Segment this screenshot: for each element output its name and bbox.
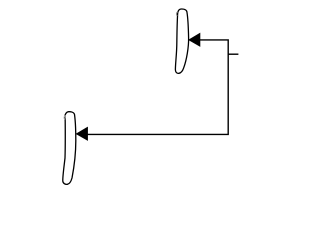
wire (189, 33, 200, 46)
node A (175, 9, 188, 73)
wire (76, 127, 87, 140)
node B (63, 112, 76, 185)
wire (82, 40, 228, 134)
wire (228, 53, 238, 55)
